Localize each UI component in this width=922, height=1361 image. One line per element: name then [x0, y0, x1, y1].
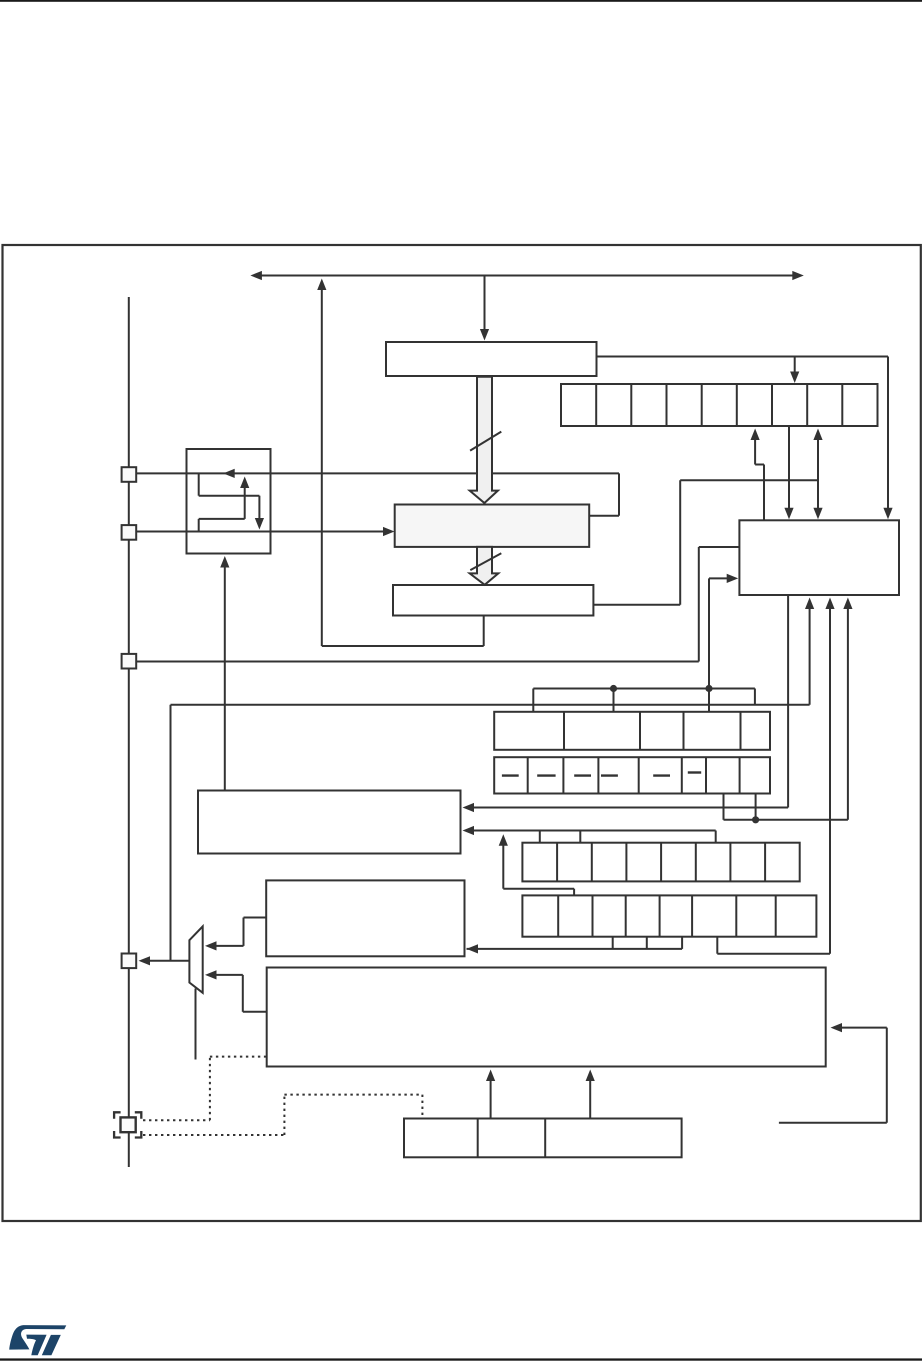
wire mux output to NSS pin [139, 956, 190, 965]
pin MOSI [122, 525, 137, 540]
wire CRC row to bit bracket (up arrow) [499, 834, 574, 895]
GPIO pin rail [128, 297, 130, 1167]
wire MOSI input line (pin to shift register) [137, 527, 395, 536]
wire NSS logic register to master control (arrow 1) [486, 1070, 495, 1119]
wire bus to read buffer [480, 276, 489, 341]
bus width slash 2 [470, 553, 501, 570]
wire write buffer to SR/BRG riser [593, 480, 818, 604]
NSS logic register (3 cells) [404, 1119, 682, 1158]
wire CRC bits comb to communication controller [467, 937, 683, 954]
control register CR2 (bit cells) [494, 712, 770, 750]
wire MISO output line (shift register to pin) [137, 469, 620, 516]
wire baud rate generator to SR (jogged up arrow) [751, 429, 765, 521]
pin NSS internal [122, 954, 137, 969]
pin mux logic U4 [187, 449, 271, 554]
pin MISO [122, 467, 137, 482]
wire bit bracket to interrupt control (lower) [463, 826, 716, 843]
wire SCK pin to baud rate generator [137, 547, 740, 662]
wire CRC register to baud rate generator [717, 598, 834, 954]
read buffer U1 [386, 342, 597, 376]
pin logic cross path 1 (down arrow) [199, 473, 264, 529]
fat bus arrow read buffer to shift register [470, 377, 498, 503]
wire communication controller to mux [205, 918, 266, 951]
junction dot A [610, 685, 617, 692]
ST logo [9, 1325, 66, 1355]
wire SR bit to baud rate generator (down arrow) [784, 426, 793, 519]
bus width slash 1 [470, 432, 501, 451]
dotted wire NSS pin to NSS logic register [143, 1095, 422, 1135]
pin NSS (alternate function brackets) [114, 1112, 141, 1137]
control register CR1 (bit cells with dashes) [494, 757, 770, 793]
page top rule [0, 0, 922, 2]
wire NSS logic register to master control (arrow 2) [586, 1070, 595, 1119]
wire CR2 bit taps comb [533, 578, 755, 711]
dotted wire NSS pin to master control logic [143, 1057, 266, 1121]
pin SCK [122, 654, 137, 669]
junction dot C [752, 816, 759, 823]
write buffer U3 [393, 585, 593, 616]
junction dot B [705, 685, 712, 692]
status register SR (9 bit cells) [561, 384, 878, 426]
wire read buffer to status register / baud rate generator [597, 357, 893, 520]
master control logic U8 [267, 968, 826, 1067]
diagram frame [3, 245, 921, 1221]
wire write buffer to bus (up arrow) [317, 279, 326, 647]
internal data bus line [250, 271, 803, 280]
baud rate generator U5 [739, 520, 899, 595]
CRC register (bit cells) [522, 895, 816, 936]
fat bus arrow shift register to write buffer [470, 547, 499, 585]
interrupt control U6 [198, 791, 461, 854]
page bottom rule [0, 1358, 922, 1360]
wire baud rate generator to interrupt control (upper) [463, 595, 789, 812]
wire master control logic to mux [205, 970, 267, 1012]
polynomial register (bit cells) [522, 843, 799, 882]
wire SR to baud rate generator (double arrow) [813, 429, 822, 520]
pin logic cross path 2 (up arrow) [199, 477, 250, 532]
wire interrupt control to pin logic (up arrow) [220, 556, 229, 790]
shift register U2 [395, 505, 590, 547]
wire CR2 bit to baud rate generator (right arrow) [709, 574, 738, 583]
communication controller U7 [266, 880, 464, 956]
wire CR1 bits to baud rate generator [724, 598, 853, 820]
wire feedback loop to master control logic [779, 1023, 887, 1123]
wire control bus to NSS mux / baud rate generator [171, 598, 815, 961]
mux select stub [195, 989, 197, 1060]
NSS output mux [189, 926, 202, 992]
wire write buffer bottom to bus riser [322, 616, 484, 647]
